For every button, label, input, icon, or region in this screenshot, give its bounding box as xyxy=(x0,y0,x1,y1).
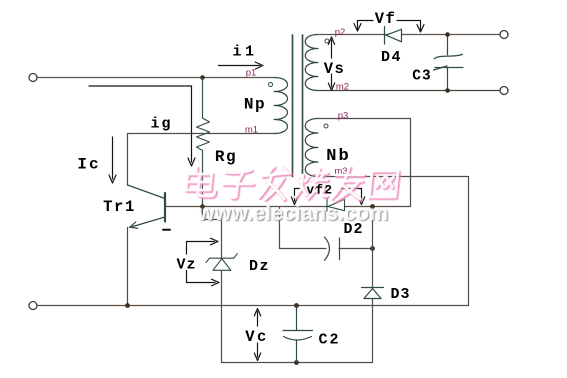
wire: base rail xyxy=(165,206,411,208)
wire: bottom main rail xyxy=(38,305,469,307)
svg-text:Vf: Vf xyxy=(375,10,397,28)
svg-text:p3: p3 xyxy=(338,111,349,122)
minus mark at emitter xyxy=(163,229,170,231)
annotation: Vf bracket xyxy=(354,21,424,33)
svg-text:i1: i1 xyxy=(232,44,257,61)
node p1 junction dot xyxy=(200,75,205,80)
svg-text:Vs: Vs xyxy=(324,60,346,78)
annotation: Vz bracket xyxy=(187,238,220,286)
svg-text:C2: C2 xyxy=(318,332,340,349)
svg-text:C3: C3 xyxy=(412,69,431,85)
capacitor C3 xyxy=(434,35,464,91)
svg-text:D4: D4 xyxy=(381,49,402,66)
wire: top input rail xyxy=(38,77,275,79)
phase dot Vs xyxy=(325,39,329,43)
label Vz xyxy=(175,255,198,274)
terminal: output top xyxy=(500,31,508,39)
svg-text:m1: m1 xyxy=(245,125,258,136)
node C2 bottom dot xyxy=(294,360,299,365)
svg-text:p1: p1 xyxy=(246,68,257,79)
annotation: Vc arrow xyxy=(254,309,260,361)
wire: p2 to output top xyxy=(318,34,500,36)
wire: m1 from Np bottom to collector xyxy=(128,134,277,186)
diode D3 xyxy=(362,288,384,299)
node C3 bottom dot xyxy=(445,88,450,93)
wire: zener branch jog xyxy=(203,207,222,259)
wire: vertical through D3 xyxy=(372,207,374,288)
node C3 top dot xyxy=(445,32,450,37)
wire: lower loop rail xyxy=(222,362,373,364)
diode D4 xyxy=(385,27,402,45)
svg-text:Np: Np xyxy=(244,96,266,114)
svg-text:vf2: vf2 xyxy=(306,184,333,198)
winding Vs (secondary top) xyxy=(305,35,318,91)
annotation: i1 arrow xyxy=(219,62,264,69)
wire: zener to lower loop xyxy=(221,270,223,362)
winding Nb (feedback) xyxy=(305,119,318,177)
wire: D2 branch xyxy=(280,207,327,249)
svg-text:Vc: Vc xyxy=(245,328,269,346)
wire: D2 to junction xyxy=(339,248,373,250)
capacitor D2 xyxy=(325,237,340,260)
terminal: input bottom xyxy=(29,302,37,310)
winding Np (primary) xyxy=(274,78,288,134)
svg-text:Dz: Dz xyxy=(249,258,270,275)
svg-text:Ic: Ic xyxy=(77,156,100,174)
svg-text:ig: ig xyxy=(150,116,172,133)
annotation: Ic arrow xyxy=(109,137,116,183)
label Vc xyxy=(243,327,272,347)
svg-text:Tr1: Tr1 xyxy=(103,198,136,216)
svg-text:D3: D3 xyxy=(390,286,410,303)
wire: m2 to output bottom xyxy=(318,90,500,92)
node D2 junction dot xyxy=(370,246,375,251)
annotation: Vs arrows xyxy=(328,37,334,91)
svg-text:Vz: Vz xyxy=(176,257,196,274)
transformer core xyxy=(292,35,294,177)
node base junction dot xyxy=(200,204,205,209)
svg-text:p2: p2 xyxy=(335,27,346,38)
annotation: ig arrow xyxy=(89,86,195,166)
wire: p3 to base rail xyxy=(318,119,411,207)
phase dot Np xyxy=(269,83,273,87)
wire: m3 to bottom rail xyxy=(318,177,469,306)
zener Dz xyxy=(206,254,237,271)
terminal: input top xyxy=(29,74,37,82)
svg-text:m2: m2 xyxy=(336,82,349,93)
resistor Rg xyxy=(197,78,210,207)
node junction dot right of base diode xyxy=(370,204,375,209)
diode on base wire (vf2) xyxy=(327,199,345,212)
svg-text:Nb: Nb xyxy=(326,147,350,166)
node emitter rail dot xyxy=(125,303,130,308)
svg-text:www.elecians.com: www.elecians.com xyxy=(197,201,388,225)
transistor Q Tr1 xyxy=(128,185,166,228)
svg-text:Rg: Rg xyxy=(215,148,237,166)
phase dot Nb xyxy=(324,124,328,128)
annotation: vf2 bracket xyxy=(291,189,364,205)
node C2 top dot xyxy=(294,303,299,308)
capacitor C2 xyxy=(283,306,313,363)
terminal: output bottom xyxy=(500,87,508,95)
wire: emitter to bottom rail xyxy=(127,228,129,306)
